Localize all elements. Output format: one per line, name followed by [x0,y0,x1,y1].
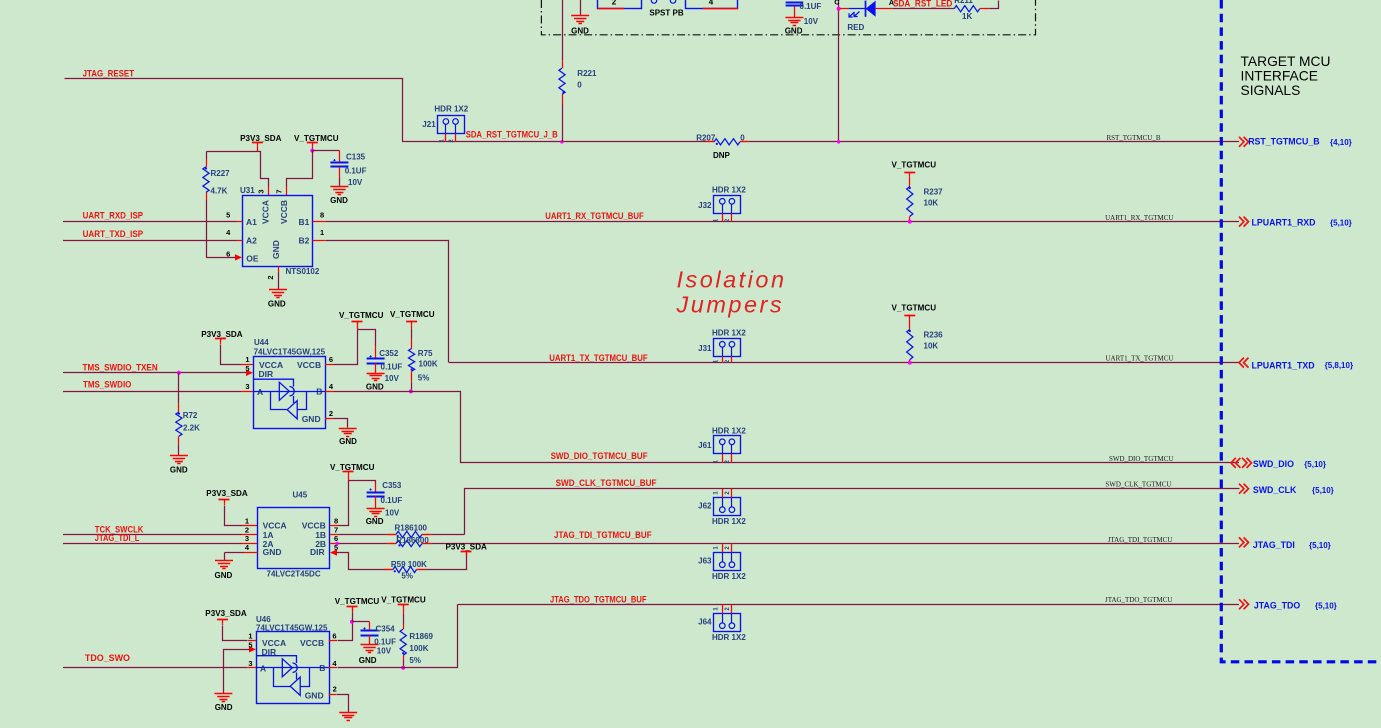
svg-text:VCCB: VCCB [300,638,324,648]
junction V_TGTMCU [312,147,314,151]
svg-text:{5,10}: {5,10} [1312,486,1334,495]
wire branch to C354 [353,621,370,623]
off-page connector SWD_CLK [1239,484,1249,494]
svg-text:6: 6 [332,632,336,641]
wire JTAG_TDI_L [63,543,242,545]
off-page connector RST_TGTMCU_B [1239,137,1249,147]
svg-text:SWD_CLK: SWD_CLK [1253,485,1297,495]
svg-text:{5,8,10}: {5,8,10} [1325,361,1353,370]
ground GND under capacitor [785,17,803,19]
svg-text:74LVC2T45DC: 74LVC2T45DC [267,569,321,578]
wire VCCB pin6 to V_TGTMCU and C352 [325,364,334,366]
svg-text:5%: 5% [401,572,413,581]
resistor R207 0 DNP [714,139,740,145]
capacitor C352 0.1UF 10V [367,358,385,360]
svg-text:JTAG_TDI_L: JTAG_TDI_L [95,533,140,543]
svg-text:100K: 100K [409,644,428,653]
svg-text:Jumpers: Jumpers [676,292,785,318]
svg-text:J21: J21 [422,120,436,129]
svg-text:Isolation: Isolation [677,267,787,293]
ground GND (inside box, left) [580,0,582,16]
svg-text:J31: J31 [698,344,712,353]
svg-text:J63: J63 [698,557,712,566]
svg-text:TARGET MCU: TARGET MCU [1241,54,1331,69]
svg-text:V_TGTMCU: V_TGTMCU [381,595,426,604]
svg-text:A: A [260,663,266,673]
wire UART_TXD_ISP [63,240,237,242]
svg-text:LPUART1_RXD: LPUART1_RXD [1252,218,1316,228]
ground GND under U45 [215,560,233,562]
svg-text:SDA_RST_LED: SDA_RST_LED [893,0,953,8]
svg-text:HDR 1X2: HDR 1X2 [712,517,746,526]
ground GND under C354 [361,644,379,646]
svg-text:0.1UF: 0.1UF [381,496,403,505]
svg-text:V_TGTMCU: V_TGTMCU [390,310,435,319]
svg-text:P3V3_SDA: P3V3_SDA [446,543,488,552]
svg-text:TMS_SWDIO_TXEN: TMS_SWDIO_TXEN [83,363,158,373]
LED SDA_RST_LED (red) [866,1,876,17]
svg-text:UART1_RX_TGTMCU: UART1_RX_TGTMCU [1105,214,1173,222]
svg-text:2: 2 [245,525,249,534]
capacitor C135 0.1UF 10V [330,162,348,164]
svg-text:R207: R207 [696,133,716,142]
svg-text:1: 1 [248,632,252,641]
svg-text:JTAG_TDI_TGTMCU: JTAG_TDI_TGTMCU [1108,536,1173,544]
wire V_TGTMCU to VCCB pin8 and C353 [348,476,350,481]
svg-text:HDR 1X2: HDR 1X2 [712,329,746,338]
wire V_TGTMCU to C135 [312,150,339,152]
wire V_TGTMCU to VCCB pin 7 [287,151,313,187]
ground GND under U44 pin2 [339,428,357,430]
svg-text:1: 1 [320,228,324,237]
svg-text:TMS_SWDIO: TMS_SWDIO [83,380,131,390]
svg-text:LPUART1_TXD: LPUART1_TXD [1252,360,1315,370]
wire TDO_SWO to A [63,667,247,669]
svg-text:TDO_SWO: TDO_SWO [85,653,130,663]
svg-text:HDR 1X2: HDR 1X2 [712,572,746,581]
svg-text:SIGNALS: SIGNALS [1241,83,1301,98]
svg-text:10K: 10K [924,341,939,350]
svg-text:7: 7 [334,525,338,534]
svg-text:DNP: DNP [713,151,731,160]
svg-text:U44: U44 [254,338,269,347]
wire P3V3_SDA to U45 VCCA [224,503,226,505]
svg-text:RST_TGTMCU_B: RST_TGTMCU_B [1248,137,1319,147]
svg-text:GND: GND [366,383,384,392]
svg-text:R1869: R1869 [409,632,433,641]
J21 pin wires to RST bus [445,134,447,142]
resistor R75 100K 5% [411,325,413,329]
junction V_TGTMCU C354 [350,620,354,624]
svg-text:2: 2 [333,684,337,693]
svg-text:GND: GND [268,300,286,309]
resistor R211 1K [954,6,980,12]
connector J63 HDR 1X2 (mirrored) [714,553,741,571]
svg-text:2.2K: 2.2K [183,423,200,432]
svg-text:0.1UF: 0.1UF [800,2,822,11]
svg-text:RST_TGTMCU_B: RST_TGTMCU_B [1106,134,1160,142]
svg-text:6: 6 [329,355,333,364]
svg-text:10V: 10V [385,508,400,517]
svg-text:1: 1 [245,355,249,364]
svg-text:JTAG_TDO_TGTMCU_BUF: JTAG_TDO_TGTMCU_BUF [550,594,647,604]
capacitor C353 0.1UF 10V [367,492,385,494]
svg-text:R186100: R186100 [395,523,428,532]
off-page connector JTAG_TDO [1239,599,1249,609]
wire VCCB pin6 to V_TGTMCU and C354 [329,640,337,642]
switch S - pushbutton actuator circles [651,0,656,3]
svg-text:GND: GND [305,690,324,700]
svg-text:{5,10}: {5,10} [1315,601,1337,610]
resistor R237 10K [909,176,911,186]
svg-text:UART1_TX_TGTMCU_BUF: UART1_TX_TGTMCU_BUF [549,353,648,363]
switch S - SPST PB terminal 2 [598,0,642,9]
svg-text:GND: GND [271,240,281,259]
svg-text:J62: J62 [698,502,712,511]
svg-text:0.1UF: 0.1UF [381,363,403,372]
wire TMS_SWDIO to A [63,391,241,393]
junction R236/UART1_TX bus [908,361,912,365]
svg-text:DIR: DIR [259,369,274,379]
resistor R1868 100 [396,540,422,546]
svg-text:10V: 10V [804,17,819,26]
svg-text:GND: GND [785,27,803,36]
svg-text:3: 3 [245,534,249,543]
junction R221/RST bus [560,140,564,144]
svg-text:R236: R236 [924,330,944,339]
junction R1869/U46 B line [401,666,405,670]
wire to R72 [178,373,180,404]
svg-text:R211: R211 [954,0,973,5]
svg-text:HDR 1X2: HDR 1X2 [434,105,468,114]
svg-text:5: 5 [245,364,249,373]
wire C352 to ground [375,363,377,373]
svg-text:SPST PB: SPST PB [649,9,683,18]
svg-text:R221: R221 [577,69,597,78]
svg-text:V_TGTMCU: V_TGTMCU [339,311,384,320]
junction R75/U44 B line [409,389,413,393]
svg-text:GND: GND [366,517,384,526]
svg-text:U46: U46 [256,615,271,624]
svg-text:HDR 1X2: HDR 1X2 [712,427,746,436]
wire P3V3_SDA to VCCA pin1 [220,342,222,344]
svg-text:V_TGTMCU: V_TGTMCU [892,161,937,170]
resistor R236 10K [909,320,911,330]
svg-text:GND: GND [339,437,357,446]
svg-text:VCCB: VCCB [297,360,321,370]
svg-text:V_TGTMCU: V_TGTMCU [335,597,380,606]
wire B2 to UART1_TX bus [313,240,326,242]
resistor R1867 100 [396,531,422,537]
svg-text:10V: 10V [377,647,392,656]
wire U46 GND pin2 to ground [329,694,337,696]
svg-text:3: 3 [245,382,249,391]
svg-text:10V: 10V [385,374,400,383]
resistor R227 4.7K [206,151,208,159]
svg-text:SWD_DIO_TGTMCU: SWD_DIO_TGTMCU [1109,455,1174,463]
svg-text:UART1_TX_TGTMCU: UART1_TX_TGTMCU [1105,355,1173,363]
switch S - SPST PB terminal 4 [686,0,738,9]
resistor R72 2.2K [176,412,182,436]
svg-text:RED: RED [847,23,864,32]
svg-text:DIR: DIR [310,547,325,557]
wire U46 B output to JTAG_TDO bus [329,667,337,669]
svg-text:C352: C352 [379,349,399,358]
connector J62 HDR 1X2 (mirrored) [714,498,741,516]
svg-text:7: 7 [275,189,284,193]
svg-text:GND: GND [359,656,377,665]
svg-text:GND: GND [215,571,233,580]
wire C354 to ground [369,635,371,644]
off-page connector SWD_DIO [1231,458,1241,468]
svg-text:J61: J61 [698,441,712,450]
svg-text:8: 8 [320,211,324,220]
U46 internal buffer symbol [256,656,297,680]
svg-text:UART_RXD_ISP: UART_RXD_ISP [83,210,144,220]
wire SDA_RST net vertical (x=838.6) from pushbutton to RST bus [838,0,840,142]
off-page connector JTAG_TDI [1239,537,1249,547]
ground GND under R72 [170,455,188,457]
svg-text:P3V3_SDA: P3V3_SDA [206,489,248,498]
svg-text:2: 2 [329,409,333,418]
wire B1 to UART1_RX bus [313,221,326,223]
wire 1B through R186 to SWD_CLK bus [330,534,339,536]
svg-text:P3V3_SDA: P3V3_SDA [240,134,282,143]
svg-text:10V: 10V [348,178,363,187]
svg-text:R75: R75 [418,349,433,358]
svg-text:UART1_RX_TGTMCU_BUF: UART1_RX_TGTMCU_BUF [545,211,644,221]
svg-text:C353: C353 [382,481,402,490]
wire TCK_SWCLK [63,534,242,536]
off-page connector LPUART1_RXD [1239,217,1249,227]
svg-text:J64: J64 [698,618,712,627]
ground GND under C135 [330,186,348,188]
ground GND under C353 [367,508,385,510]
wire cathode lead [840,8,849,10]
junction LED branch/RST bus [837,140,841,144]
off-page connector LPUART1_TXD [1239,358,1249,368]
svg-text:4.7K: 4.7K [211,187,228,196]
svg-text:{5,10}: {5,10} [1309,541,1331,550]
svg-text:R72: R72 [183,411,198,420]
junction R72/TXEN [177,371,181,375]
svg-text:UART_TXD_ISP: UART_TXD_ISP [83,229,143,239]
wire P3V3_SDA to U46 VCCA [222,623,224,625]
svg-text:5%: 5% [409,656,421,665]
svg-text:HDR 1X2: HDR 1X2 [712,186,746,195]
svg-text:JTAG_TDI: JTAG_TDI [1253,540,1295,550]
svg-text:2: 2 [266,275,275,279]
wire DIR pin5 through R59 to P3V3_SDA [330,549,337,555]
svg-text:4: 4 [709,0,714,6]
svg-text:5%: 5% [418,374,430,383]
svg-text:GND: GND [170,465,188,474]
wire R211 to top [980,8,990,10]
svg-text:B1: B1 [299,217,310,227]
svg-text:R59 100K: R59 100K [391,560,427,569]
svg-text:GND: GND [215,703,233,712]
svg-text:0: 0 [577,80,582,89]
wire U46 DIR to ground [249,646,256,652]
connector J64 HDR 1X2 (mirrored) [714,614,741,632]
svg-text:V_TGTMCU: V_TGTMCU [892,304,937,313]
svg-text:U45: U45 [293,490,308,499]
svg-text:{5,10}: {5,10} [1304,460,1326,469]
U44 internal buffer symbol [253,379,294,403]
svg-text:V_TGTMCU: V_TGTMCU [294,134,339,143]
ground GND under U46 pin2 [339,712,357,714]
svg-text:A2: A2 [246,236,257,246]
svg-text:SWD_DIO_TGTMCU_BUF: SWD_DIO_TGTMCU_BUF [551,451,648,461]
svg-text:2: 2 [612,0,617,6]
wire P3V3_SDA to R227 and VCCA [257,147,259,152]
svg-text:C135: C135 [346,152,366,161]
svg-text:NTS0102: NTS0102 [286,267,320,276]
resistor R221 0 [559,68,565,94]
wire U44 GND pin2 to ground [325,418,334,420]
svg-text:GND: GND [571,27,589,36]
svg-text:OE: OE [246,254,259,264]
svg-text:5: 5 [248,641,252,650]
svg-text:GND: GND [302,414,321,424]
wire from pushbutton to R221 (vertical at x=562) [562,0,564,60]
svg-text:VCCA: VCCA [261,200,271,224]
svg-text:VCCB: VCCB [279,200,289,224]
svg-text:{5,10}: {5,10} [1330,218,1352,227]
svg-text:GND: GND [330,196,348,205]
svg-text:JTAG_TDO_TGTMCU: JTAG_TDO_TGTMCU [1105,596,1173,604]
wire C135 to ground [339,167,341,178]
svg-text:SWD_DIO: SWD_DIO [1253,459,1294,469]
resistor R1869 100K 5% [403,609,405,614]
svg-text:JTAG_TDO: JTAG_TDO [1254,600,1300,610]
svg-text:U31: U31 [240,186,255,195]
svg-text:JTAG_RESET: JTAG_RESET [83,69,135,79]
ground GND under U46 DIR [214,693,232,695]
wire JTAG_RESET [65,79,403,142]
svg-text:HDR 1X2: HDR 1X2 [712,633,746,642]
wire 2B through R1868 to JTAG_TDI bus [330,543,339,545]
svg-text:J32: J32 [698,201,712,210]
svg-text:1K: 1K [962,12,972,21]
resistor R59 100K 5% [393,566,417,572]
svg-text:74LVC1T45GW,125: 74LVC1T45GW,125 [254,348,326,357]
svg-text:SWD_CLK_TGTMCU: SWD_CLK_TGTMCU [1105,481,1171,489]
junction 2B pin [335,542,339,546]
svg-text:P3V3_SDA: P3V3_SDA [201,330,243,339]
svg-text:R237: R237 [924,187,944,196]
capacitor C354 0.1UF 10V [361,630,379,632]
svg-text:C354: C354 [376,624,396,633]
svg-text:JTAG_TDI_TGTMCU_BUF: JTAG_TDI_TGTMCU_BUF [554,530,652,540]
svg-text:B2: B2 [299,236,310,246]
capacitor C? 0.1UF 10V (inside box) [794,6,796,18]
svg-text:R227: R227 [211,169,231,178]
wire R227 to OE [206,192,208,200]
svg-text:0.1UF: 0.1UF [345,166,367,175]
svg-text:{4,10}: {4,10} [1330,138,1352,147]
junction at LED branch [837,7,841,11]
svg-text:100K: 100K [419,359,438,368]
wire TMS_SWDIO_TXEN to DIR [63,372,248,374]
U31 GND pin 2 [278,267,280,273]
svg-text:GND: GND [263,547,282,557]
junction R237/UART1_RX bus [908,220,912,224]
ground GND under C352 [367,373,385,375]
svg-text:0: 0 [740,133,745,142]
wire anode to R211 [876,8,893,10]
svg-text:1: 1 [245,516,249,525]
svg-text:5: 5 [226,211,230,220]
svg-text:6: 6 [226,249,230,258]
svg-text:SWD_CLK_TGTMCU_BUF: SWD_CLK_TGTMCU_BUF [556,478,657,488]
svg-text:P3V3_SDA: P3V3_SDA [205,609,247,618]
dash-dot boundary box of reset pushbutton circuit [541,0,1035,35]
svg-text:3: 3 [257,189,266,193]
blue dashed sheet boundary [1221,0,1381,662]
wire UART_RXD_ISP [63,221,237,223]
wire U44 B output to SWD_DIO bus [325,391,334,393]
svg-text:6: 6 [334,534,338,543]
svg-text:C: C [834,0,840,7]
wire U45 GND pin4 to ground [243,552,258,554]
svg-text:8: 8 [334,516,338,525]
svg-text:SDA_RST_TGTMCU_J_B: SDA_RST_TGTMCU_J_B [466,130,558,140]
svg-text:3: 3 [248,659,252,668]
svg-text:INTERFACE: INTERFACE [1241,68,1318,83]
svg-text:10K: 10K [924,198,939,207]
ground GND under U31 [269,289,287,291]
svg-text:A1: A1 [246,217,257,227]
wire RST bus left segment [402,141,705,143]
wire C353 to ground [375,496,377,508]
wire branch to C352 [358,330,376,346]
wire RST bus right segment [740,141,749,143]
